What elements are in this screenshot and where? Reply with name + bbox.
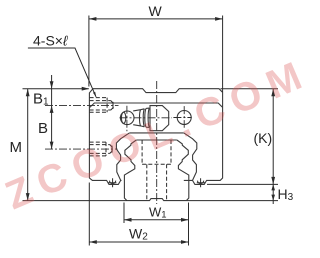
center vertical centerline <box>156 81 158 204</box>
nipple body <box>133 108 149 127</box>
W dimension <box>89 16 223 93</box>
nipple hex <box>150 106 169 131</box>
leader arrowhead <box>93 92 96 98</box>
carriage inner wall right <box>184 133 197 181</box>
hole 1 centerline <box>45 104 119 106</box>
rail counterbore hidden <box>142 140 171 164</box>
svg-text:(K): (K) <box>254 130 273 146</box>
svg-text:4-S×ℓ: 4-S×ℓ <box>33 33 68 49</box>
right circle crosshair <box>173 106 191 128</box>
H3 top extension <box>207 183 278 185</box>
W arrow left <box>89 17 97 21</box>
side tapped hole 1 (hidden) <box>90 98 116 113</box>
M dimension <box>27 89 29 201</box>
grease nipple ball tip <box>120 111 134 125</box>
hole 1 drill tip tick <box>112 102 114 109</box>
rail bolt hole hidden <box>147 164 167 199</box>
svg-text:B: B <box>38 120 48 137</box>
rail bottom with center notch <box>127 199 186 201</box>
svg-text:M: M <box>10 139 23 156</box>
side tapped hole 2 (hidden) <box>90 142 114 156</box>
H3 dimension <box>272 184 274 204</box>
end cap screw circle right <box>177 111 191 125</box>
B1/B dimension line <box>51 75 53 149</box>
W1 dimension <box>124 203 189 246</box>
nipple crosshair <box>120 106 173 132</box>
seal port arc left <box>110 181 116 184</box>
carriage block outline <box>93 89 223 185</box>
hole 2 centerline <box>45 148 118 150</box>
top edge arrow <box>82 87 90 91</box>
W arrow right <box>215 17 223 21</box>
carriage inner wall left <box>116 133 129 181</box>
hole 2 drill tip tick <box>111 146 113 153</box>
leader 4-Sxl <box>28 48 96 97</box>
rail top <box>136 139 177 141</box>
rail profile right <box>177 140 189 201</box>
top edge extension left <box>23 88 89 90</box>
rail bottom extension <box>23 200 279 202</box>
seal port arc right <box>198 181 204 184</box>
watermark ZCOOL.COM <box>0 51 316 219</box>
seal tab cross right <box>197 178 205 187</box>
K dimension line <box>272 89 274 185</box>
W2 dimension <box>89 183 188 246</box>
svg-text:W: W <box>149 3 163 19</box>
rail profile left <box>124 140 136 201</box>
inner chamfer line across block <box>90 103 223 107</box>
seal tab cross left <box>108 178 116 187</box>
carriage inner recess top <box>129 132 183 134</box>
K top extension <box>221 88 279 90</box>
